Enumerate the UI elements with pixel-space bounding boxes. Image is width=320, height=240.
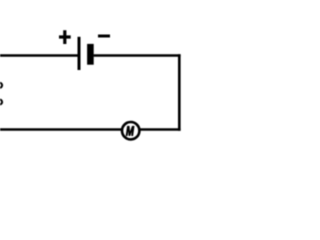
wire bottom-left (motor to left edge) (0, 128, 122, 131)
battery B1 negative plate (87, 44, 94, 65)
wire bottom-right (corner to motor) (140, 128, 181, 131)
wire top-right (battery to corner) (94, 54, 181, 57)
switch terminal (lower, cut off at left edge) (0, 100, 2, 105)
motor U1 circle (122, 122, 139, 139)
battery B1 positive plate (78, 37, 81, 70)
motor U1 letter M (126, 126, 134, 135)
label + (59, 30, 71, 44)
wire top-left (to battery + plate) (0, 54, 79, 57)
wire right side (vertical) (178, 54, 181, 131)
label - (98, 35, 110, 38)
switch terminal (upper, cut off at left edge) (0, 83, 2, 88)
